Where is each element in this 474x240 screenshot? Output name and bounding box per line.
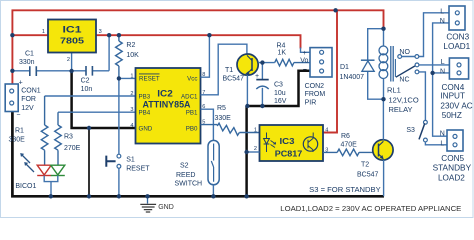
svg-text:S1: S1 [126, 157, 135, 164]
connector CON4 [449, 58, 468, 79]
connector CON1 [5, 84, 18, 112]
svg-text:1K: 1K [278, 50, 287, 57]
svg-text:1: 1 [254, 127, 257, 133]
connector CON5 [447, 130, 463, 151]
IC2 ATTINY85A [136, 68, 201, 144]
svg-text:IC1: IC1 [63, 24, 82, 34]
wire neutral bus CON3 N to CON4 N to CON5 N [433, 23, 450, 136]
LED BICO1 green half [51, 165, 65, 175]
wire T2 collector to relay node [382, 99, 384, 140]
svg-text:R1: R1 [15, 128, 24, 135]
svg-text:PC817: PC817 [275, 150, 303, 159]
svg-text:7805: 7805 [60, 37, 85, 46]
svg-text:−: − [303, 67, 307, 74]
svg-text:1: 1 [130, 73, 133, 79]
transistor T2 [373, 140, 393, 160]
svg-text:CON3: CON3 [446, 32, 469, 41]
svg-text:PB1: PB1 [186, 110, 198, 117]
svg-text:330E: 330E [9, 137, 26, 144]
svg-text:BICO1: BICO1 [15, 183, 36, 190]
IC3 PC817 [260, 125, 324, 161]
svg-text:GND: GND [158, 204, 174, 211]
svg-text:R5: R5 [217, 105, 226, 112]
svg-text:T1: T1 [225, 67, 233, 74]
svg-text:Vcc: Vcc [187, 76, 197, 83]
svg-text:R6: R6 [341, 133, 350, 140]
svg-text:R3: R3 [64, 134, 73, 141]
svg-text:+: + [303, 50, 307, 57]
svg-text:470E: 470E [341, 141, 358, 148]
diode D1 [368, 29, 384, 100]
wire red IC1 input from CON1 node [12, 34, 48, 36]
svg-text:LOAD2: LOAD2 [438, 173, 465, 182]
resistor R1 [41, 96, 48, 165]
svg-text:L: L [440, 9, 444, 16]
svg-text:FROM: FROM [305, 91, 326, 98]
svg-text:RL1: RL1 [387, 85, 401, 94]
capacitor C1 [30, 66, 37, 76]
wire PB4 to R3 [58, 111, 136, 113]
svg-text:Vo: Vo [300, 58, 308, 65]
svg-text:NC: NC [399, 77, 409, 84]
ground black: drop from IC2 gnd path to bus [88, 128, 90, 196]
svg-text:LOAD1,LOAD2 = 230V AC OPERATED: LOAD1,LOAD2 = 230V AC OPERATED APPLIANCE [280, 204, 461, 213]
svg-text:C3: C3 [274, 81, 283, 88]
relay armature link [394, 59, 396, 77]
svg-text:RESET: RESET [139, 76, 160, 83]
svg-text:2: 2 [254, 146, 257, 152]
svg-text:L: L [440, 141, 444, 148]
svg-text:4: 4 [130, 123, 133, 129]
wire IC2 Vcc riser to 5V rail [201, 35, 210, 77]
wire PB3 to R1 [45, 95, 136, 97]
svg-text:+: + [19, 80, 23, 87]
wire red 12V drop to IC3 pin4 [323, 10, 337, 132]
ground symbol GND [147, 196, 149, 203]
svg-text:S3: S3 [406, 127, 415, 134]
ground black: CON1 minus drop and bottom bus [12, 112, 384, 197]
svg-text:IC3: IC3 [280, 137, 296, 146]
svg-text:PIR: PIR [305, 99, 317, 106]
reed switch S2 [208, 140, 219, 184]
relay common arm [396, 66, 416, 78]
svg-text:270E: 270E [64, 145, 81, 152]
wire 5V red rail from IC1 pin3 to CON2 + drop [96, 35, 301, 48]
resistor R4 [275, 59, 310, 66]
wire T2 emitter to ground bus [383, 160, 385, 196]
switch S1 [117, 154, 121, 158]
svg-text:50HZ: 50HZ [442, 111, 462, 120]
resistor R6 [323, 149, 373, 156]
switch S3 [424, 120, 428, 124]
relay RL1 coil [383, 29, 385, 47]
svg-text:R2: R2 [126, 42, 135, 49]
svg-text:CON5: CON5 [441, 154, 464, 163]
relay core [391, 46, 393, 82]
svg-text:10K: 10K [126, 52, 139, 59]
resistor R3 [55, 112, 62, 165]
svg-text:12V: 12V [21, 105, 34, 112]
svg-text:BC547: BC547 [223, 76, 245, 83]
svg-text:N: N [440, 18, 445, 25]
capacitor C2 [86, 66, 92, 76]
wire IC1 pin2 down [71, 53, 73, 72]
IC3 internal LED [264, 133, 270, 153]
wire IC3 pin2 to ground vertical [247, 151, 260, 153]
svg-text:SWITCH: SWITCH [175, 180, 203, 187]
svg-text:FOR: FOR [21, 96, 36, 103]
svg-text:10n: 10n [81, 86, 93, 93]
svg-text:C2: C2 [81, 78, 90, 85]
svg-text:4: 4 [325, 127, 328, 133]
ground black: upper bus T1 emitter to CON2 minus [247, 71, 310, 106]
svg-text:N: N [440, 68, 445, 75]
svg-text:REED: REED [176, 172, 195, 179]
transistor T1 [237, 54, 258, 75]
wire T1 emitter to ground bus [246, 75, 248, 105]
svg-text:+: + [255, 73, 259, 80]
wire IC2 ADC1 to T1 collector [201, 44, 247, 95]
wire S1 vertical [118, 78, 120, 196]
svg-text:RESET: RESET [126, 166, 150, 173]
svg-text:3: 3 [130, 107, 133, 113]
svg-text:1: 1 [42, 29, 45, 35]
connector CON2 [310, 48, 332, 77]
resistor R2 [116, 35, 123, 78]
svg-text:ATTINY85A: ATTINY85A [143, 100, 191, 110]
svg-text:−: − [16, 112, 20, 119]
svg-text:IC2: IC2 [157, 89, 173, 99]
relay NO contact [398, 55, 402, 59]
LED arrows [22, 155, 35, 173]
svg-text:LOAD1: LOAD1 [443, 42, 470, 51]
svg-text:N: N [440, 130, 445, 137]
svg-text:BC547: BC547 [357, 171, 379, 178]
svg-text:INPUT: INPUT [440, 92, 465, 101]
svg-text:230V AC: 230V AC [440, 102, 472, 111]
svg-text:RELAY: RELAY [389, 105, 413, 114]
wire CON2 plus elbow [301, 48, 311, 53]
wire IC2 PB1 to reed switch [201, 109, 214, 140]
resistor R5 [201, 123, 260, 135]
svg-text:S3 = FOR STANDBY: S3 = FOR STANDBY [309, 187, 381, 194]
svg-text:PB4: PB4 [139, 110, 151, 117]
svg-text:T2: T2 [361, 161, 369, 168]
IC1 7805 [48, 20, 96, 53]
svg-text:GND: GND [139, 126, 153, 133]
svg-text:CON1: CON1 [21, 88, 41, 95]
svg-text:D1: D1 [340, 64, 349, 71]
svg-text:CON2: CON2 [305, 83, 325, 90]
relay NC contact [415, 70, 419, 74]
svg-text:2: 2 [67, 57, 70, 63]
capacitor C3 [261, 63, 263, 79]
wire 12V red rail: left vertical, top rail, right drop to relay node [12, 10, 383, 84]
svg-text:S2: S2 [180, 162, 189, 169]
svg-text:STANDBY: STANDBY [433, 164, 472, 173]
svg-text:10u: 10u [274, 90, 286, 97]
svg-text:3: 3 [99, 29, 102, 35]
connector CON3 [449, 6, 465, 30]
svg-text:L: L [441, 59, 445, 66]
wire T1 base to R4 node [258, 62, 275, 64]
svg-text:NO: NO [399, 49, 410, 56]
svg-text:12V,1CO: 12V,1CO [389, 95, 419, 104]
svg-text:PB0: PB0 [186, 126, 198, 133]
IC3 internal phototransistor [303, 137, 317, 151]
wire caps line 12V to IC1 gnd to 5V riser [12, 35, 109, 71]
ground black: IC2 GND pin4 path [72, 71, 136, 128]
svg-text:2: 2 [130, 91, 133, 97]
svg-text:R4: R4 [277, 42, 286, 49]
svg-text:330E: 330E [215, 115, 232, 122]
svg-text:330n: 330n [19, 59, 35, 66]
LED BICO1 red half [37, 165, 51, 175]
svg-text:1N4007: 1N4007 [340, 74, 365, 81]
svg-text:16V: 16V [274, 98, 287, 105]
svg-text:C1: C1 [25, 51, 34, 58]
ground black: vertical from T1 emitter bus to bottom bus [245, 106, 248, 196]
wire LED cathodes join to bus [44, 176, 58, 197]
wire RESET pin1 to R2/S1 node [119, 77, 136, 79]
